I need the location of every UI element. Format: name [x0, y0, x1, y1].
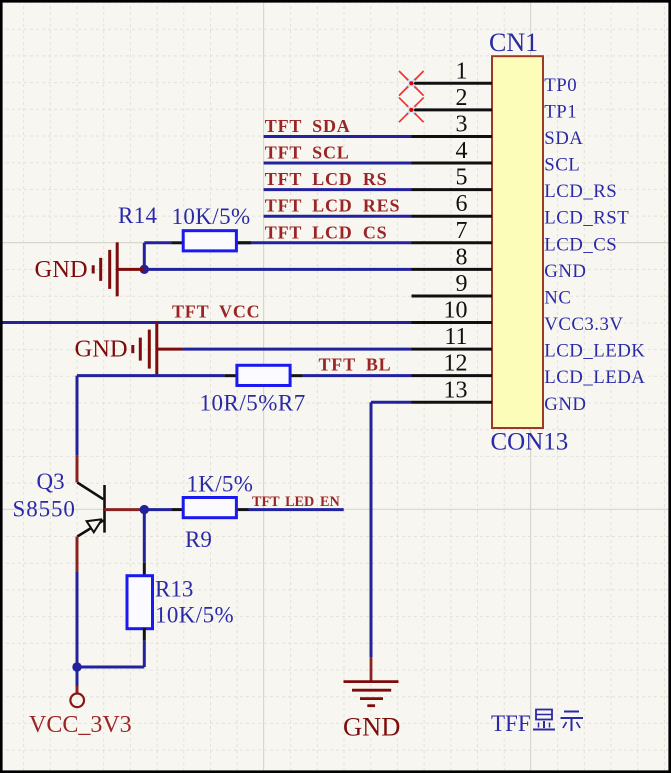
svg-text:8: 8 [456, 244, 468, 270]
svg-text:TP0: TP0 [544, 75, 577, 96]
svg-text:LCD_CS: LCD_CS [544, 234, 617, 255]
svg-text:GND: GND [35, 256, 88, 283]
svg-text:TFT SCL: TFT SCL [265, 143, 350, 163]
svg-text:GND: GND [75, 336, 128, 363]
svg-text:R14: R14 [118, 203, 157, 228]
svg-text:6: 6 [456, 191, 468, 217]
svg-text:9: 9 [456, 271, 468, 297]
svg-text:R9: R9 [185, 527, 212, 552]
svg-text:1K/5%: 1K/5% [187, 472, 254, 497]
svg-text:TFF: TFF [491, 711, 531, 736]
svg-text:TP1: TP1 [544, 101, 577, 122]
svg-text:4: 4 [456, 138, 468, 164]
svg-text:GND: GND [343, 712, 400, 742]
svg-text:VCC3.3V: VCC3.3V [544, 314, 623, 335]
svg-text:10: 10 [444, 298, 468, 324]
svg-text:13: 13 [444, 377, 468, 403]
svg-text:2: 2 [456, 85, 468, 111]
svg-text:GND: GND [544, 261, 586, 282]
svg-text:LCD_RST: LCD_RST [544, 208, 629, 229]
svg-text:5: 5 [456, 165, 468, 191]
svg-text:3: 3 [456, 111, 468, 137]
svg-text:LCD_LEDA: LCD_LEDA [544, 367, 645, 388]
svg-text:1: 1 [456, 58, 468, 84]
svg-text:GND: GND [544, 394, 586, 415]
svg-text:10R/5%R7: 10R/5%R7 [200, 391, 306, 416]
svg-text:12: 12 [444, 351, 468, 377]
svg-text:Q3: Q3 [37, 469, 65, 494]
svg-text:TFT VCC: TFT VCC [172, 302, 260, 322]
svg-text:10K/5%: 10K/5% [155, 603, 234, 628]
svg-text:TFT BL: TFT BL [319, 354, 392, 374]
svg-text:CON13: CON13 [491, 429, 569, 456]
svg-text:10K/5%: 10K/5% [172, 204, 251, 229]
svg-text:TFT LCD RS: TFT LCD RS [265, 169, 388, 189]
svg-text:TFT LCD CS: TFT LCD CS [265, 222, 388, 242]
svg-text:SDA: SDA [544, 128, 583, 149]
svg-text:VCC_3V3: VCC_3V3 [29, 712, 132, 738]
svg-text:11: 11 [444, 324, 467, 350]
svg-text:SCL: SCL [544, 155, 580, 176]
svg-text:CN1: CN1 [489, 28, 538, 57]
svg-text:7: 7 [456, 218, 468, 244]
svg-text:TFT LED EN: TFT LED EN [252, 494, 340, 510]
svg-text:LCD_RS: LCD_RS [544, 181, 617, 202]
svg-text:LCD_LEDK: LCD_LEDK [544, 341, 645, 362]
svg-text:TFT LCD RES: TFT LCD RES [265, 196, 401, 216]
svg-text:R13: R13 [155, 577, 193, 602]
svg-text:TFT SDA: TFT SDA [265, 116, 351, 136]
svg-text:NC: NC [544, 287, 571, 308]
svg-text:S8550: S8550 [13, 497, 76, 522]
